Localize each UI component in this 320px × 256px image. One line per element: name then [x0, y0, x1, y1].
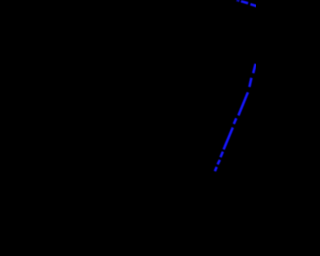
steep dashed line, dash d7	[218, 160, 220, 165]
upper shallow dashed line, dash t2	[241, 1, 248, 3]
steep dashed line, dash d3 (long)	[238, 92, 248, 115]
steep dashed line, dash d8 (line end)	[215, 167, 217, 171]
steep dashed line, dash d4	[234, 118, 237, 124]
upper shallow dashed line, dash t1 (clipped by top edge)	[237, 0, 240, 2]
upper shallow dashed line, dash t3 (exits right edge)	[250, 4, 256, 6]
steep dashed line, dash d6	[221, 152, 223, 158]
steep dashed line, dash d1 (enters at right edge)	[253, 64, 255, 73]
steep dashed line, dash d5 (long)	[224, 128, 233, 150]
steep dashed line, dash d2	[249, 78, 251, 87]
